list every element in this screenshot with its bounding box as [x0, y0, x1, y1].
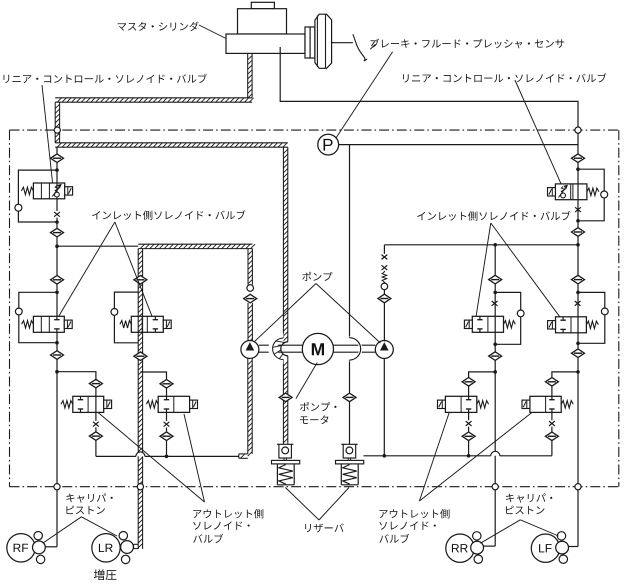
LF wire to caliper — [569, 546, 579, 548]
LR inlet solenoid valve — [131, 316, 163, 332]
pipe loop around pump shaft — [273, 338, 284, 360]
hatch on pipe loop — [279, 354, 283, 359]
RR outlet solenoid valve — [445, 396, 476, 412]
RF outlet solenoid valve — [73, 396, 104, 412]
label pump — [302, 272, 332, 281]
reservoir 2 check ball — [346, 447, 353, 454]
HECU boundary box dash-dot frame — [10, 129, 619, 131]
check diamond below right linear valve — [572, 228, 585, 237]
wire: right pump suction — [383, 359, 385, 456]
return line right circuit — [364, 455, 491, 457]
orifice X below right linear valve — [575, 207, 581, 212]
brake booster flange rings — [305, 27, 310, 58]
wire: reservoir 2 feed lower — [349, 360, 351, 393]
LR outlet solenoid valve — [158, 396, 189, 412]
orifice X below LF outlet — [549, 421, 555, 426]
bypass check ball RR inlet — [517, 310, 524, 317]
wire: right distribution line — [384, 244, 578, 246]
check valve diamond on left pump discharge — [244, 294, 257, 303]
pedal mark — [370, 42, 375, 50]
label linear control solenoid valve right — [403, 73, 606, 82]
RR branch vertical wire — [494, 245, 496, 275]
wire: left linear valve branch — [56, 147, 58, 154]
label inlet solenoid valves right — [417, 211, 570, 221]
reservoir 2 piston plate — [336, 460, 364, 464]
reservoir 1 check ball — [282, 447, 289, 454]
check diamond below RF outlet — [89, 432, 102, 441]
check diamond right discharge — [378, 294, 391, 303]
wire: outlet branch LF — [552, 372, 578, 378]
wire through left linear valve — [56, 183, 58, 192]
brake booster shell — [315, 14, 332, 68]
label inlet solenoid valves left — [92, 210, 245, 220]
filter diamond LF branch — [572, 275, 585, 284]
check valve diamond on reservoir 1 feed — [279, 393, 292, 402]
check ball right discharge — [381, 283, 388, 290]
RR inlet solenoid valve — [472, 316, 503, 332]
wire below RF outlet valve — [95, 412, 97, 421]
label master cylinder — [118, 22, 199, 31]
filter diamond RR branch — [489, 275, 502, 284]
wire: pressure sensor line to right branch — [339, 144, 578, 146]
label pressure increase — [94, 569, 117, 580]
LR pipe stub to caliper — [134, 543, 139, 545]
filter diamond below right HECU port — [572, 154, 585, 163]
bypass check ball right linear valve — [601, 191, 608, 198]
LF caliper piston circles — [557, 532, 565, 540]
wire below RR outlet valve — [468, 412, 470, 420]
check ball on left pump discharge — [247, 285, 254, 292]
wire: LF wheel supply — [577, 358, 579, 547]
booster push rod — [332, 42, 353, 44]
leader left caliper pistons label — [43, 517, 81, 543]
leader left linear valve label — [42, 85, 53, 183]
leader right linear valve label — [515, 80, 561, 184]
wire: left distribution line — [57, 245, 138, 247]
master cylinder body — [226, 34, 305, 53]
orifice X below RF outlet — [93, 422, 99, 427]
LF wheel cylinder — [531, 534, 559, 562]
LR caliper piston circles — [119, 532, 127, 540]
wire below LR outlet valve — [166, 412, 168, 421]
linear control solenoid valve left — [33, 183, 64, 199]
check diamond below RF inlet valve — [51, 351, 64, 360]
reservoir 2 body with spring — [340, 464, 342, 485]
pump motor M — [302, 333, 333, 364]
reservoir 2 inlet valve housing — [343, 444, 356, 458]
RF wheel cylinder — [7, 534, 35, 562]
orifice X below RR outlet — [466, 421, 472, 426]
reservoir 1 piston plate — [272, 460, 300, 464]
LF inlet solenoid valve — [556, 317, 587, 333]
leader reservoirs label V — [285, 488, 319, 521]
RF wire to caliper — [46, 546, 58, 548]
check diamond above LR outlet valve — [160, 380, 173, 389]
leader right outlet valves label — [419, 413, 531, 501]
wire through right linear valve — [577, 184, 579, 199]
bypass loop LR inlet valve — [114, 292, 138, 308]
label caliper piston left — [66, 493, 112, 502]
brake pedal linkage curve — [353, 34, 365, 61]
check diamond above LF outlet valve — [545, 378, 558, 387]
wire below LF outlet valve — [551, 412, 553, 420]
pipe: LR wheel branch — [137, 249, 139, 549]
check diamond below LF outlet — [545, 432, 558, 441]
RR wheel supply wire — [494, 360, 496, 546]
RR caliper piston circles — [473, 532, 481, 540]
check diamond below RR outlet — [462, 432, 475, 441]
bypass loop RF inlet valve — [19, 292, 57, 308]
RR wire to caliper — [484, 545, 496, 547]
pipe: distribution band circuit 1 — [138, 243, 252, 245]
LF outlet solenoid valve — [530, 396, 561, 412]
label outlet solenoid valves left — [193, 509, 263, 518]
label caliper piston right — [506, 493, 552, 502]
pipe: supply band to reservoir 1 — [55, 142, 288, 144]
bypass loop left linear valve — [18, 170, 57, 204]
master cylinder reservoir tank — [238, 9, 287, 34]
leader right caliper pistons label — [480, 520, 520, 543]
label reservoir — [305, 523, 344, 532]
RR wheel cylinder — [446, 534, 474, 562]
RF inlet solenoid valve — [33, 316, 64, 332]
wire: outlet branch RF — [57, 372, 96, 380]
pressure sensor P — [318, 134, 339, 155]
orifice X below LR outlet — [164, 422, 170, 427]
return line left circuit — [96, 455, 136, 457]
damper spring on right discharge — [382, 272, 387, 282]
filter diamond left front branch — [51, 276, 64, 285]
label linear control solenoid valve left — [3, 74, 206, 83]
pipe: master cylinder port 1 drop — [247, 53, 249, 97]
pipe: pump discharge riser left — [247, 249, 249, 285]
check valve diamond on reservoir 2 feed — [343, 393, 356, 402]
label pump motor — [300, 402, 337, 411]
check diamond above RR outlet valve — [462, 378, 475, 387]
reservoir 2 stem — [347, 458, 349, 461]
pipe: down left side to HECU port — [54, 102, 56, 143]
bypass check ball LF inlet — [601, 308, 608, 315]
check diamond below LF inlet valve — [572, 349, 585, 358]
leader left outlet valves label — [98, 413, 204, 502]
wire: outlet branch LR — [140, 372, 166, 380]
leader pump motor label — [296, 363, 317, 399]
master cylinder reservoir cap — [251, 2, 274, 8]
wire: RF wheel supply — [56, 359, 58, 547]
leader left inlet valves label — [59, 222, 115, 316]
leader right inlet valves label — [476, 223, 491, 316]
leader pressure sensor label — [336, 52, 393, 138]
wire: right pump discharge riser — [383, 245, 385, 254]
wire through RF outlet valve — [95, 396, 97, 412]
bypass loop RR inlet valve — [495, 292, 521, 310]
pump left — [241, 341, 259, 359]
wire: right linear branch vertical — [577, 154, 579, 163]
pump right — [375, 341, 393, 359]
reservoir 1 body with spring — [276, 464, 278, 485]
pipe elbow to return line — [239, 453, 248, 455]
pipe: reservoir 1 feed lower segment — [282, 360, 284, 444]
bypass loop right linear valve — [578, 169, 604, 191]
wire: master cylinder port 2 to right linear valve branch — [280, 47, 578, 154]
orifice X below left linear valve — [54, 212, 60, 217]
node circles on bottom boundary — [54, 484, 60, 490]
label brake fluid pressure sensor — [371, 39, 565, 49]
orifice X above LF inlet valve — [575, 301, 581, 306]
reservoir 1 inlet valve housing — [279, 444, 292, 458]
check diamond below RR inlet valve — [489, 352, 502, 361]
leader master cylinder label — [199, 25, 226, 39]
bypass check ball LR inlet — [111, 309, 118, 316]
orifice X pair on right discharge — [382, 255, 388, 260]
check diamond above RF outlet valve — [89, 379, 102, 388]
orifice X above RR inlet valve — [492, 301, 498, 306]
linear control solenoid valve right — [555, 184, 587, 200]
pump shaft — [259, 344, 303, 346]
filter diamond below left HECU port — [51, 154, 64, 163]
HECU inlet port node circuit 2 circle — [575, 127, 581, 133]
check diamonds on LR pipe — [134, 276, 147, 285]
HECU inlet port node circuit 1 — [54, 127, 60, 133]
bypass check ball left linear valve — [15, 204, 22, 211]
pipe: reservoir 1 feed drop — [282, 147, 284, 338]
RF caliper piston circles — [34, 532, 42, 540]
wire: outlet branch RR — [469, 372, 496, 378]
label outlet solenoid valves right — [379, 509, 449, 518]
bypass check ball RF inlet — [15, 308, 22, 315]
check diamond below LR outlet — [160, 432, 173, 441]
reservoir 1 stem — [283, 458, 285, 461]
LR wheel cylinder — [92, 534, 120, 562]
leader pump label — [254, 284, 316, 343]
wire: sensor line tee down to reservoir 2 — [349, 145, 351, 338]
pipe corner to left — [55, 97, 252, 99]
pipe: pump suction drop left — [247, 358, 249, 454]
check diamond below left linear valve — [51, 228, 64, 237]
wire detour arc over pump shaft right — [350, 338, 361, 360]
bypass loop LF inlet valve — [578, 292, 605, 308]
